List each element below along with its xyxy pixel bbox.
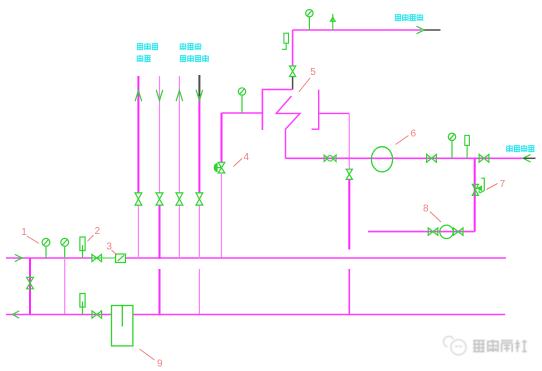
relief valve V7: [472, 178, 484, 195]
black pipe tail top right: [424, 29, 440, 31]
wire drop from top pipe: [292, 30, 294, 66]
wire lower main left: [6, 314, 112, 316]
label 供暖回水 (cyan): [506, 145, 534, 152]
flow arrow right on top pipe: [417, 26, 425, 33]
black pipe tail right: [524, 157, 536, 159]
pressure gauge G2: [61, 238, 69, 258]
valve V4 with hand wheel: [214, 162, 225, 173]
wire HX inlet stub: [222, 112, 263, 114]
wire upper main left: [6, 257, 92, 259]
gate valve left of pump 8: [428, 228, 438, 235]
arrow down R4: [196, 90, 203, 101]
riser R1: [137, 76, 139, 258]
svg-text:4: 4: [244, 152, 250, 163]
pressure gauge G1: [42, 238, 50, 258]
svg-text:9: 9: [157, 359, 163, 370]
svg-text:6: 6: [411, 128, 417, 139]
gate valve on upper main: [92, 254, 102, 261]
watermark text 暖通南社 (gray): [473, 340, 527, 353]
dirt separator 9: [112, 306, 133, 346]
valve R2: [156, 193, 163, 205]
label 4: [234, 152, 250, 167]
label 3: [106, 242, 117, 256]
valve on secondary drop: [346, 169, 352, 179]
wire pump-8 line: [368, 231, 475, 233]
arrow down R2: [156, 90, 163, 101]
thermometer T2: [80, 237, 85, 258]
riser R3: [178, 76, 180, 258]
automatic air vent on top pipe: [330, 14, 336, 30]
thermometer right: [465, 135, 470, 158]
label 供暖给水 (cyan): [395, 14, 423, 21]
thermometer left of drop: [282, 33, 289, 49]
svg-text:3: 3: [106, 242, 112, 253]
pump P8 (circle): [440, 225, 453, 238]
gray pipe segment below valve 5: [292, 77, 294, 90]
thermometer lower: [80, 294, 85, 315]
wire lower main right: [133, 314, 505, 316]
heat exchanger HX left plate: [262, 90, 292, 131]
wire secondary drop below upper main: [348, 269, 350, 315]
wire bypass vertical: [29, 258, 31, 315]
wire bypass 2 (thin): [64, 258, 66, 315]
flow arrow right on upper main: [15, 254, 22, 261]
svg-text:7: 7: [500, 179, 506, 190]
label 8: [423, 204, 441, 223]
flow arrow left on lower main: [13, 311, 20, 318]
gate valve right of pump 8: [453, 228, 463, 235]
svg-text:1: 1: [21, 227, 27, 238]
label 6: [396, 128, 417, 144]
label 2: [87, 226, 100, 241]
watermark logo circles: [444, 336, 467, 354]
valve R4: [196, 193, 203, 205]
label 至热水 / 供应系统 (cyan): [180, 43, 209, 62]
wire upper main right: [126, 257, 506, 259]
HX right outlet stub: [319, 112, 350, 114]
svg-text:2: 2: [95, 226, 101, 237]
label 5: [299, 67, 317, 92]
valve on bypass: [27, 277, 34, 288]
gate valve on pump-6 line (left): [427, 154, 437, 162]
wire valve-4 riser lower part: [221, 173, 223, 258]
HX right plate: [312, 90, 319, 130]
label 9: [140, 349, 164, 370]
wire secondary drop upper: [348, 113, 350, 169]
wire relief branch vertical: [474, 158, 476, 231]
pressure gauge on HX inlet: [238, 88, 245, 113]
flexible joint: [324, 155, 336, 162]
valve R1: [135, 193, 142, 205]
valve R3: [176, 193, 183, 205]
svg-text:5: 5: [310, 67, 316, 78]
label 1: [21, 227, 39, 244]
riser R2: [159, 76, 161, 315]
arrow up R1: [135, 91, 142, 102]
riser R4 gray head: [198, 75, 200, 96]
pump P6 (circle): [371, 147, 392, 172]
gate valve on pump-6 line (right): [479, 154, 489, 162]
green link through valve to strainer: [92, 257, 116, 259]
valve V5 (vertical): [290, 66, 296, 77]
wire valve-4 riser upper part: [221, 113, 223, 162]
arrow up R3: [176, 91, 183, 102]
strainer 3 (square with diagonal): [116, 254, 126, 263]
svg-text:8: 8: [423, 204, 429, 215]
riser R4: [198, 96, 200, 315]
HX plate zigzag coil: [276, 96, 300, 158]
label 7: [487, 179, 506, 190]
label 至暖风 / 系统 (cyan): [137, 43, 158, 62]
pressure gauge right: [448, 133, 455, 158]
wire pump-6 line: [286, 157, 524, 159]
gate valve lower main: [92, 311, 102, 318]
flow arrow left (return inlet): [523, 155, 531, 162]
pressure gauge on top pipe: [306, 10, 313, 31]
wire top supply pipe: [293, 29, 422, 31]
wire secondary drop thick: [348, 179, 350, 249]
